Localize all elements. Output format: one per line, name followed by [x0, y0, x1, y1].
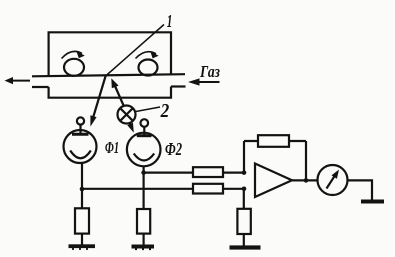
meter needle: [327, 174, 336, 188]
ground bar under op-amp resistor: [230, 245, 261, 249]
roller right: [139, 60, 158, 76]
load resistor R2 under F2: [137, 209, 150, 234]
lamp body: [118, 106, 136, 124]
grounded resistor under op-amp input: [237, 209, 250, 234]
wire lower input line: [82, 188, 244, 190]
svg-text:2: 2: [160, 100, 169, 122]
wire upper input line: [144, 172, 244, 174]
phototube F2 anode plate: [137, 134, 152, 137]
junction dot op-amp upper input: [242, 170, 247, 175]
phototube F2 cathode arc: [134, 154, 155, 161]
junction dot F1 line: [80, 187, 85, 192]
op-amp U1: [255, 164, 292, 198]
wire F1 down to load resistor: [81, 163, 83, 208]
lamp cross: [120, 108, 133, 121]
ground bar right of meter: [361, 200, 384, 204]
input resistor lower: [193, 184, 223, 194]
right lower pipe stub: [171, 85, 186, 87]
arrowhead ray lamp to F2: [127, 123, 134, 133]
meter M1 body: [318, 165, 348, 195]
phototube F2 body: [127, 133, 161, 167]
phototube F2 top terminal: [141, 119, 149, 127]
wire to grounded resistor under op-amp: [243, 189, 245, 209]
arrowhead rotation right: [150, 51, 158, 58]
junction dot output: [304, 178, 309, 183]
svg-text:Газ: Газ: [199, 62, 220, 81]
gas outlet arrow: [5, 77, 31, 84]
light ray film to phototube F1: [92, 76, 105, 121]
chamber upper walls: [49, 32, 171, 76]
ground bar under R1: [69, 244, 96, 248]
rotation arrow right: [136, 52, 157, 59]
wire meter to ground: [348, 180, 373, 199]
wire R2 to ground: [143, 234, 145, 245]
arrowhead rotation left: [76, 51, 85, 58]
ground bar under R2: [132, 245, 155, 249]
junction dot F2 line: [141, 170, 146, 175]
wire F2 down to load resistor: [143, 166, 145, 209]
input resistor upper: [193, 167, 223, 177]
wire R1 to ground: [81, 234, 83, 245]
pointer line to label 1: [106, 25, 164, 77]
feedback left vertical wire: [243, 141, 245, 173]
arrowhead meter needle: [332, 170, 340, 179]
phototube F1 cathode arc: [70, 151, 91, 159]
phototube F2 stem: [143, 127, 145, 135]
svg-text:Ф2: Ф2: [165, 139, 182, 159]
phototube F1 top terminal: [77, 117, 84, 124]
output wire: [292, 179, 318, 181]
tape line through chamber: [32, 74, 185, 76]
wire resistor to ground: [243, 234, 245, 246]
feedback top wire: [244, 140, 306, 142]
phototube F1 body: [64, 130, 97, 163]
arrowhead ray lamp to film: [111, 78, 118, 88]
arrowhead ray to F1: [90, 115, 96, 126]
roller left: [64, 59, 84, 76]
feedback right vertical wire: [305, 141, 307, 180]
gas inlet arrow: [188, 78, 220, 85]
left lower pipe stub: [32, 86, 49, 88]
chamber lower walls: [49, 87, 171, 98]
phototube F1 stem: [79, 125, 81, 134]
rotation arrow left: [62, 51, 83, 58]
phototube F1 anode plate: [72, 133, 89, 136]
feedback resistor: [258, 135, 289, 147]
ground hatch ticks under R1 bar: [72, 248, 74, 250]
svg-text:Ф1: Ф1: [105, 138, 119, 157]
svg-text:1: 1: [167, 11, 173, 31]
light ray lamp to film: [113, 82, 124, 107]
light ray lamp to phototube F2: [130, 123, 132, 128]
leader line to label 2: [136, 107, 160, 112]
junction dot op-amp lower input: [242, 187, 247, 192]
load resistor R1 under F1: [75, 208, 89, 233]
ground hatch ticks under R2 bar: [135, 249, 137, 251]
